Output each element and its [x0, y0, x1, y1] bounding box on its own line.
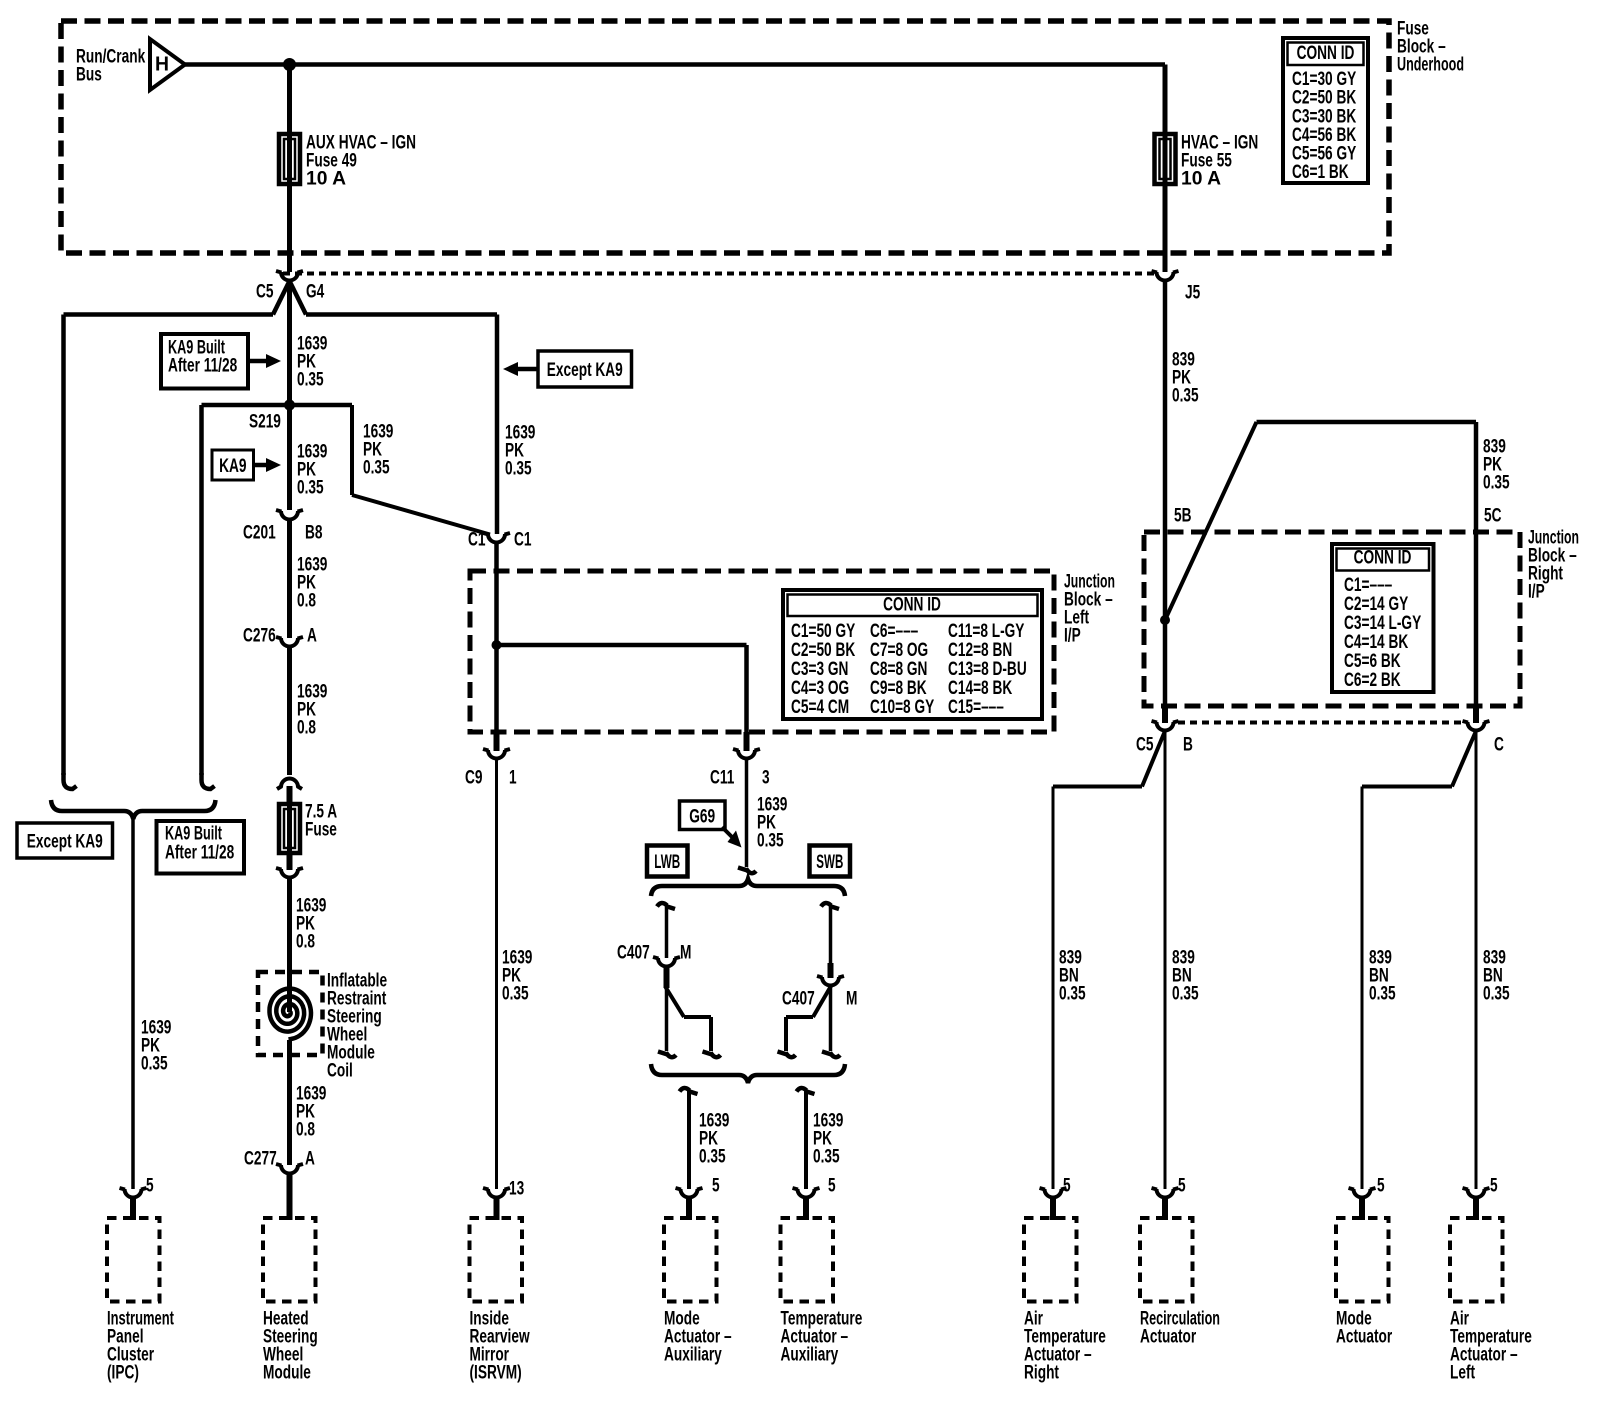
svg-text:C407: C407 [617, 943, 650, 964]
svg-text:5: 5 [712, 1176, 720, 1197]
svg-text:C11: C11 [710, 768, 735, 789]
svg-text:C4=14 BK: C4=14 BK [1344, 632, 1408, 653]
svg-text:C1=–––: C1=––– [1344, 575, 1392, 596]
svg-text:Except KA9: Except KA9 [27, 832, 103, 853]
svg-text:C5: C5 [1136, 735, 1154, 756]
svg-text:0.35: 0.35 [1483, 473, 1510, 494]
svg-text:0.35: 0.35 [502, 984, 529, 1005]
svg-text:G69: G69 [689, 806, 715, 827]
svg-text:Bus: Bus [76, 65, 102, 86]
svg-text:C407: C407 [782, 989, 815, 1010]
svg-text:1: 1 [509, 768, 517, 789]
svg-text:0.35: 0.35 [363, 458, 390, 479]
svg-text:I/P: I/P [1528, 582, 1545, 603]
svg-text:0.35: 0.35 [1172, 386, 1199, 407]
svg-text:0.35: 0.35 [757, 831, 784, 852]
svg-text:C10=8 GY: C10=8 GY [870, 697, 934, 718]
svg-text:C1: C1 [468, 530, 486, 551]
svg-text:(IPC): (IPC) [107, 1363, 139, 1384]
svg-text:C11=8 L-GY: C11=8 L-GY [948, 621, 1025, 642]
svg-text:C8=8 GN: C8=8 GN [870, 659, 927, 680]
svg-text:0.35: 0.35 [505, 459, 532, 480]
svg-text:KA9 Built: KA9 Built [165, 824, 222, 845]
svg-text:Actuator: Actuator [1336, 1327, 1393, 1348]
svg-text:0.35: 0.35 [1483, 984, 1510, 1005]
svg-text:CONN ID: CONN ID [883, 595, 941, 616]
svg-text:0.35: 0.35 [1059, 984, 1086, 1005]
svg-text:C3=14 L-GY: C3=14 L-GY [1344, 613, 1421, 634]
svg-text:C: C [1494, 735, 1504, 756]
svg-text:C1: C1 [514, 530, 532, 551]
svg-text:After 11/28: After 11/28 [165, 843, 234, 864]
svg-text:Fuse: Fuse [305, 820, 337, 841]
svg-text:S219: S219 [249, 412, 281, 433]
svg-text:H: H [155, 53, 169, 75]
svg-text:After 11/28: After 11/28 [168, 356, 237, 377]
svg-text:C6=1 BK: C6=1 BK [1292, 162, 1349, 183]
svg-text:5: 5 [1178, 1176, 1186, 1197]
svg-text:A: A [307, 626, 317, 647]
svg-text:Left: Left [1450, 1363, 1476, 1384]
svg-text:Coil: Coil [327, 1061, 353, 1082]
svg-text:5B: 5B [1174, 506, 1192, 527]
svg-text:C6=2 BK: C6=2 BK [1344, 670, 1401, 691]
svg-text:0.8: 0.8 [297, 591, 316, 612]
svg-text:5: 5 [1063, 1176, 1071, 1197]
svg-text:0.35: 0.35 [1172, 984, 1199, 1005]
svg-text:CONN ID: CONN ID [1354, 548, 1412, 569]
svg-text:5C: 5C [1484, 506, 1502, 527]
svg-text:C5: C5 [256, 282, 274, 303]
svg-text:5: 5 [146, 1176, 154, 1197]
svg-text:C13=8 D-BU: C13=8 D-BU [948, 659, 1027, 680]
svg-text:5: 5 [1377, 1176, 1385, 1197]
svg-text:A: A [305, 1149, 315, 1170]
svg-text:0.8: 0.8 [297, 718, 316, 739]
svg-text:SWB: SWB [816, 852, 843, 873]
svg-text:0.35: 0.35 [297, 478, 324, 499]
svg-text:3: 3 [762, 768, 770, 789]
svg-text:C3=3 GN: C3=3 GN [791, 659, 848, 680]
svg-text:C1=50 GY: C1=50 GY [791, 621, 855, 642]
svg-text:(ISRVM): (ISRVM) [470, 1363, 522, 1384]
svg-text:0.35: 0.35 [699, 1147, 726, 1168]
svg-text:C15=–––: C15=––– [948, 697, 1004, 718]
svg-text:C9=8 BK: C9=8 BK [870, 678, 927, 699]
svg-text:Module: Module [263, 1363, 311, 1384]
svg-text:10 A: 10 A [1181, 169, 1221, 190]
svg-text:C5=4 CM: C5=4 CM [791, 697, 849, 718]
svg-text:I/P: I/P [1064, 626, 1081, 647]
svg-text:C6=–––: C6=––– [870, 621, 918, 642]
svg-text:C5=6 BK: C5=6 BK [1344, 651, 1401, 672]
svg-text:C276: C276 [243, 626, 276, 647]
svg-text:C7=8 OG: C7=8 OG [870, 640, 928, 661]
svg-text:0.35: 0.35 [141, 1054, 168, 1075]
svg-text:Underhood: Underhood [1397, 55, 1464, 76]
svg-text:M: M [680, 943, 691, 964]
svg-text:CONN ID: CONN ID [1297, 43, 1355, 64]
svg-text:C14=8 BK: C14=8 BK [948, 678, 1012, 699]
svg-text:C2=14 GY: C2=14 GY [1344, 594, 1408, 615]
svg-text:B: B [1183, 735, 1193, 756]
svg-text:Auxiliary: Auxiliary [781, 1345, 839, 1366]
svg-text:G4: G4 [306, 282, 325, 303]
svg-text:Auxiliary: Auxiliary [664, 1345, 722, 1366]
svg-text:0.35: 0.35 [813, 1147, 840, 1168]
svg-text:5: 5 [828, 1176, 836, 1197]
svg-text:0.8: 0.8 [296, 932, 315, 953]
svg-text:10 A: 10 A [306, 169, 346, 190]
svg-text:C9: C9 [465, 768, 483, 789]
svg-text:C12=8 BN: C12=8 BN [948, 640, 1012, 661]
svg-text:Except KA9: Except KA9 [547, 360, 623, 381]
svg-text:C277: C277 [244, 1149, 277, 1170]
svg-text:LWB: LWB [654, 852, 680, 873]
svg-text:C201: C201 [243, 523, 276, 544]
svg-text:13: 13 [509, 1179, 524, 1200]
svg-text:C4=3 OG: C4=3 OG [791, 678, 849, 699]
svg-text:C2=50 BK: C2=50 BK [791, 640, 855, 661]
svg-text:M: M [846, 989, 857, 1010]
svg-text:0.8: 0.8 [296, 1120, 315, 1141]
svg-text:J5: J5 [1185, 283, 1201, 304]
svg-text:0.35: 0.35 [297, 370, 324, 391]
svg-text:B8: B8 [305, 523, 323, 544]
svg-text:Right: Right [1024, 1363, 1059, 1384]
svg-text:Actuator: Actuator [1140, 1327, 1197, 1348]
svg-text:5: 5 [1490, 1176, 1498, 1197]
svg-text:0.35: 0.35 [1369, 984, 1396, 1005]
svg-text:KA9: KA9 [219, 456, 246, 477]
